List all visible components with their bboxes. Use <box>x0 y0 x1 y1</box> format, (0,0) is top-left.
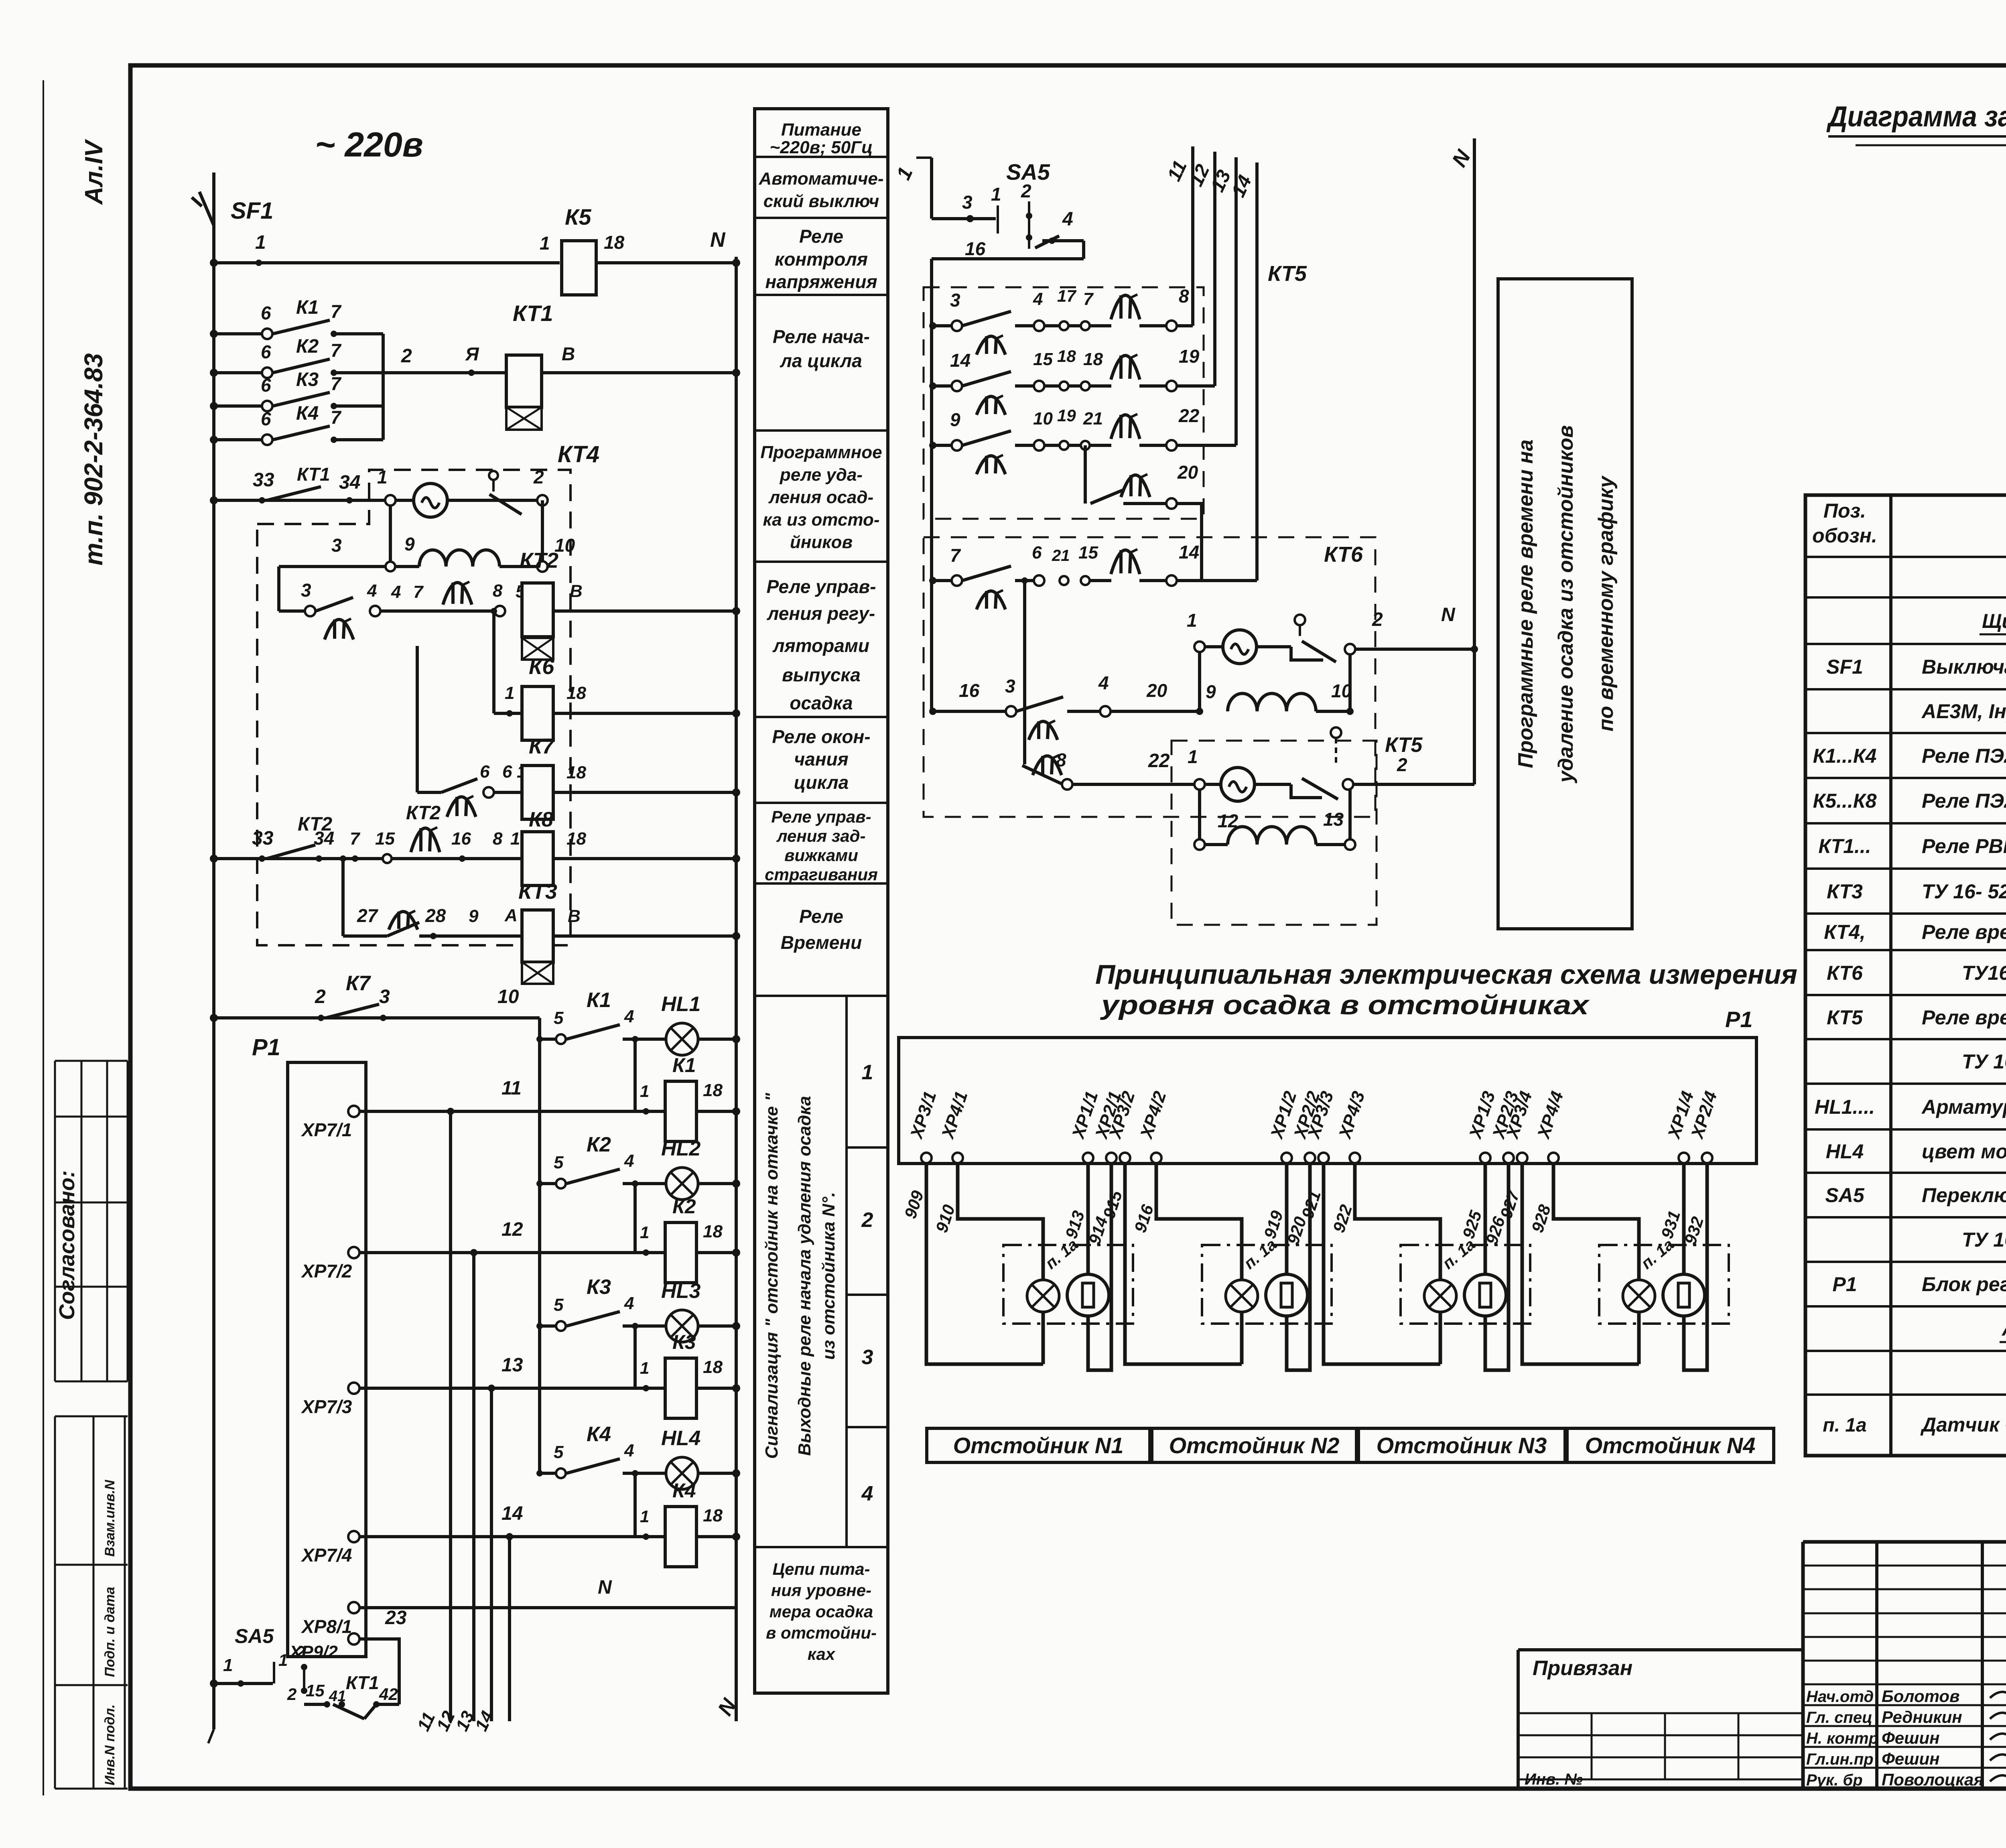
svg-text:в отстойни-: в отстойни- <box>766 1623 877 1642</box>
svg-text:Автоматиче-: Автоматиче- <box>759 169 884 189</box>
connector ХР9/2 <box>348 1633 359 1645</box>
svg-text:ТУ 16- 523. 472-74: ТУ 16- 523. 472-74 <box>1922 880 2006 903</box>
svg-text:ТУ 16-524. 074-75: ТУ 16-524. 074-75 <box>1962 1229 2006 1251</box>
svg-text:7: 7 <box>331 407 342 428</box>
svg-text:1: 1 <box>223 1655 233 1675</box>
svg-text:13: 13 <box>501 1355 523 1376</box>
svg-text:Отстойник N1: Отстойник N1 <box>953 1433 1124 1458</box>
svg-text:1: 1 <box>377 467 388 487</box>
svg-text:20: 20 <box>1146 680 1167 701</box>
svg-text:4: 4 <box>624 1441 634 1460</box>
svg-text:6: 6 <box>480 762 490 782</box>
svg-text:2: 2 <box>315 986 326 1007</box>
svg-text:15: 15 <box>375 829 395 849</box>
svg-text:4: 4 <box>861 1482 873 1505</box>
node 1 row 4 <box>643 1533 649 1540</box>
contact KT2 33-34 row <box>214 857 522 860</box>
connector XP1/4 <box>1679 1153 1689 1163</box>
note box Программные реле времени <box>1498 279 1632 929</box>
svg-text:Реле времени ВС-10-67 22: Реле времени ВС-10-67 220в <box>1922 1006 2006 1029</box>
SA5 pole 4 <box>1035 236 1059 248</box>
svg-text:К1...К4: К1...К4 <box>1813 745 1877 767</box>
svg-text:К1: К1 <box>296 297 319 318</box>
svg-text:1: 1 <box>540 233 550 254</box>
KT5 motor unit <box>1194 779 1205 790</box>
svg-text:йников: йников <box>790 532 853 552</box>
connector XP3/2 <box>1120 1153 1130 1163</box>
lamp feed bus <box>538 1018 541 1473</box>
svg-text:17: 17 <box>1057 286 1076 305</box>
svg-text:Согласовано:: Согласовано: <box>55 1170 79 1320</box>
connector XP4/2 <box>1151 1153 1161 1163</box>
KT4 time contact <box>443 583 472 605</box>
svg-text:чания: чания <box>794 749 848 770</box>
labels Отстойник N1-N4 <box>927 1428 1150 1462</box>
svg-text:К2: К2 <box>672 1195 696 1218</box>
svg-text:2: 2 <box>287 1685 296 1704</box>
svg-text:909: 909 <box>901 1188 928 1221</box>
svg-text:18: 18 <box>703 1080 723 1100</box>
connector ХР7/4 <box>348 1531 359 1542</box>
svg-text:К7: К7 <box>529 734 555 758</box>
svg-text:20: 20 <box>1177 462 1198 483</box>
svg-text:1: 1 <box>640 1082 649 1101</box>
svg-text:18: 18 <box>703 1357 723 1377</box>
svg-text:HL4: HL4 <box>661 1427 700 1450</box>
contact K3 lamp row <box>536 1323 543 1329</box>
connector ХР8/1 <box>348 1602 359 1613</box>
connector XP1/2 <box>1281 1153 1292 1163</box>
svg-text:915: 915 <box>1099 1188 1126 1221</box>
svg-text:4: 4 <box>391 582 401 602</box>
svg-text:2: 2 <box>1021 181 1031 201</box>
svg-text:22: 22 <box>1148 750 1170 772</box>
lamp branch wire 1 <box>633 1039 637 1111</box>
svg-text:7: 7 <box>1083 289 1094 309</box>
svg-text:цвет молочн. ТУ16-535. 417-7: цвет молочн. ТУ16-535. 417-75 <box>1922 1140 2006 1163</box>
svg-text:~ 220в: ~ 220в <box>315 126 423 164</box>
svg-text:921: 921 <box>1298 1188 1324 1221</box>
svg-text:Гл.ин.пр: Гл.ин.пр <box>1806 1751 1874 1768</box>
wire 909 <box>926 1163 1043 1364</box>
connector ХР7/3 <box>348 1383 359 1394</box>
svg-text:КТ1: КТ1 <box>297 464 330 485</box>
svg-text:3: 3 <box>950 290 960 311</box>
svg-text:1: 1 <box>640 1223 649 1242</box>
svg-text:3: 3 <box>962 192 973 213</box>
svg-text:16: 16 <box>965 238 986 259</box>
svg-text:HL3: HL3 <box>661 1279 700 1303</box>
svg-text:К4: К4 <box>672 1479 696 1502</box>
svg-text:928: 928 <box>1528 1202 1555 1235</box>
svg-text:2: 2 <box>861 1208 873 1232</box>
connector XP3/3 <box>1318 1153 1329 1163</box>
connector XP4/1 <box>952 1153 963 1163</box>
svg-text:33: 33 <box>252 828 274 849</box>
svg-text:N: N <box>598 1577 612 1598</box>
svg-text:922: 922 <box>1329 1202 1356 1235</box>
svg-text:Редникин: Редникин <box>1882 1708 1962 1726</box>
svg-text:8: 8 <box>1179 286 1189 307</box>
svg-text:по временному графику: по временному графику <box>1594 475 1618 731</box>
svg-text:Щит диспетчера: Щит диспетчера <box>1982 610 2006 632</box>
contact K3 <box>214 404 267 408</box>
svg-text:п. 1а: п. 1а <box>1440 1236 1479 1273</box>
svg-text:22: 22 <box>1178 405 1200 426</box>
svg-text:ления зад-: ления зад- <box>776 827 865 845</box>
svg-text:9: 9 <box>1206 681 1216 702</box>
svg-text:19: 19 <box>1057 406 1076 425</box>
svg-text:42: 42 <box>379 1685 398 1704</box>
svg-text:23: 23 <box>385 1607 407 1629</box>
svg-text:N: N <box>710 228 726 252</box>
wire 1 top <box>916 156 932 159</box>
svg-text:Реле управ-: Реле управ- <box>766 576 876 597</box>
signal lamp unit 2 <box>1226 1280 1258 1312</box>
svg-text:ХР4/3: ХР4/3 <box>1335 1089 1369 1142</box>
riser wires 11-14 <box>1191 146 1194 326</box>
svg-text:2: 2 <box>1372 609 1383 630</box>
svg-text:реле уда-: реле уда- <box>780 465 863 485</box>
svg-text:41: 41 <box>329 1688 346 1705</box>
svg-text:916: 916 <box>1131 1202 1157 1235</box>
svg-text:SА5: SА5 <box>235 1625 274 1647</box>
connector XP2/2 <box>1305 1153 1315 1163</box>
svg-text:18: 18 <box>703 1222 723 1241</box>
connector XP1/1 <box>1083 1153 1093 1163</box>
svg-text:К2: К2 <box>587 1133 611 1156</box>
svg-text:HL2: HL2 <box>661 1137 700 1160</box>
svg-text:14: 14 <box>501 1503 523 1524</box>
svg-text:К3: К3 <box>672 1331 696 1353</box>
svg-text:контроля: контроля <box>775 249 868 270</box>
node 1 row 3 <box>643 1385 649 1391</box>
block P1 long box <box>899 1038 1756 1164</box>
svg-text:Датчик СУ101 1Е2 850. 101-О: Датчик СУ101 1Е2 850. 101-ОСП <box>1920 1413 2006 1436</box>
svg-text:1: 1 <box>255 232 266 253</box>
svg-text:КТ6: КТ6 <box>1827 962 1863 984</box>
svg-text:8: 8 <box>1056 749 1066 770</box>
svg-text:вижками: вижками <box>784 846 858 865</box>
svg-text:6: 6 <box>261 303 271 323</box>
KT5 contact row 3-8 <box>929 322 936 329</box>
svg-text:Р1: Р1 <box>252 1034 280 1060</box>
svg-text:19: 19 <box>1179 346 1200 367</box>
svg-text:Реле ПЭ21-7УЗ 220В, ТУ16-523: Реле ПЭ21-7УЗ 220В, ТУ16-523.457-74 <box>1922 745 2006 767</box>
wire 13 <box>359 1387 665 1390</box>
svg-text:18: 18 <box>566 683 586 703</box>
KT4 switch contact <box>489 471 498 480</box>
svg-text:т.п. 902-2-364.83: т.п. 902-2-364.83 <box>79 353 108 565</box>
wire KT1 to N <box>542 371 736 374</box>
svg-text:7: 7 <box>350 829 361 849</box>
svg-text:Инв.N подл.: Инв.N подл. <box>102 1704 118 1785</box>
svg-text:К1: К1 <box>672 1054 696 1076</box>
connector ХР7/1 <box>348 1106 359 1117</box>
svg-text:Взам.инв.N: Взам.инв.N <box>102 1479 118 1557</box>
KT5 contact row 9-22 <box>929 442 936 449</box>
svg-text:В: В <box>562 343 575 364</box>
svg-text:3: 3 <box>862 1346 873 1369</box>
wire 916 <box>1156 1163 1242 1281</box>
svg-text:Реле: Реле <box>799 906 843 927</box>
svg-text:К3: К3 <box>296 369 319 390</box>
contact K2 <box>214 371 267 374</box>
svg-text:Отстойник N3: Отстойник N3 <box>1377 1433 1547 1458</box>
svg-text:14: 14 <box>950 350 971 371</box>
svg-text:Реле РВП72- 3221- 00У4 - 220/: Реле РВП72- 3221- 00У4 - 220/50 <box>1922 835 2006 857</box>
svg-text:3: 3 <box>331 535 342 556</box>
svg-text:Поволоцкая: Поволоцкая <box>1882 1770 1984 1789</box>
svg-text:13: 13 <box>1323 809 1344 830</box>
svg-text:Отстойник N4: Отстойник N4 <box>1585 1433 1756 1458</box>
svg-text:2: 2 <box>533 467 544 487</box>
svg-text:Реле времени ВС-10-36: Реле времени ВС-10-36 220в <box>1922 921 2006 943</box>
svg-text:7: 7 <box>331 301 342 322</box>
svg-text:5: 5 <box>554 1153 564 1172</box>
svg-text:15: 15 <box>1078 543 1098 563</box>
lamp branch wire 3 <box>633 1326 637 1388</box>
svg-text:К7: К7 <box>346 972 371 995</box>
title block row Привязан <box>1518 1648 1803 1651</box>
node A <box>468 370 475 376</box>
svg-text:931: 931 <box>1657 1208 1684 1241</box>
svg-text:1: 1 <box>862 1061 873 1084</box>
KT6 left branch <box>1023 581 1026 764</box>
node 1 row 1 <box>643 1108 649 1115</box>
connector XP3/4 <box>1517 1153 1527 1163</box>
KT5 inductor row 12-13 <box>1194 839 1205 850</box>
svg-text:п. 1а: п. 1а <box>1241 1236 1280 1273</box>
svg-text:Подп. и дата: Подп. и дата <box>102 1587 118 1677</box>
svg-text:9: 9 <box>404 534 415 554</box>
svg-text:К4: К4 <box>587 1423 611 1446</box>
svg-text:ления осад-: ления осад- <box>768 487 874 507</box>
svg-text:К2: К2 <box>296 336 319 357</box>
connector ХР7/2 <box>348 1247 359 1258</box>
svg-text:3: 3 <box>379 986 390 1007</box>
neutral bus N <box>735 257 738 1721</box>
svg-text:2: 2 <box>296 1643 305 1661</box>
svg-text:1: 1 <box>1188 746 1198 767</box>
contact K7 2-3 <box>214 1016 540 1019</box>
svg-text:913: 913 <box>1062 1208 1088 1241</box>
svg-text:~220в; 50Гц: ~220в; 50Гц <box>770 138 873 157</box>
wire row K5 <box>214 261 560 264</box>
svg-text:КТ5: КТ5 <box>1385 733 1423 757</box>
svg-text:21: 21 <box>1083 409 1103 428</box>
svg-text:ХР7/4: ХР7/4 <box>300 1545 352 1566</box>
svg-text:ния уровне-: ния уровне- <box>771 1581 871 1600</box>
svg-text:п. 1а: п. 1а <box>1042 1236 1082 1273</box>
svg-text:Нач.отд: Нач.отд <box>1806 1688 1874 1706</box>
svg-text:27: 27 <box>357 905 379 926</box>
svg-text:6: 6 <box>502 762 512 782</box>
svg-text:из отстойника N°.: из отстойника N°. <box>819 1192 839 1360</box>
svg-text:КТ4: КТ4 <box>558 441 599 467</box>
svg-text:4: 4 <box>624 1294 634 1313</box>
KT4 inner wire right <box>541 500 544 567</box>
contact KT4 to K7 <box>416 646 419 792</box>
svg-text:18: 18 <box>1083 349 1103 369</box>
svg-text:7: 7 <box>331 373 342 394</box>
svg-text:1: 1 <box>991 184 1001 205</box>
wire 14 <box>359 1535 665 1538</box>
wire 931 sensor <box>1682 1163 1686 1274</box>
svg-text:7: 7 <box>950 545 961 566</box>
KT4 motor drop wire <box>389 506 392 567</box>
svg-text:14: 14 <box>1179 542 1199 563</box>
svg-text:ТУ 16-523. 476-74: ТУ 16-523. 476-74 <box>1962 1050 2006 1073</box>
svg-text:16: 16 <box>959 680 980 701</box>
svg-text:10: 10 <box>1033 409 1053 428</box>
wire 922 <box>1355 1163 1440 1281</box>
function column frame <box>755 109 888 1693</box>
svg-text:1: 1 <box>510 829 520 849</box>
wire 919 sensor <box>1285 1163 1289 1274</box>
svg-text:КТ5: КТ5 <box>1268 262 1307 286</box>
svg-text:1: 1 <box>505 683 514 703</box>
sensor unit enclosure 2 <box>1202 1245 1332 1324</box>
wire 23 <box>359 1639 399 1704</box>
svg-text:SF1: SF1 <box>231 198 273 224</box>
svg-text:К8: К8 <box>529 808 553 831</box>
title block frame <box>1803 1540 2006 1544</box>
svg-text:HL1....: HL1.... <box>1815 1096 1875 1118</box>
sensor unit enclosure 1 <box>1003 1245 1133 1324</box>
branch to KT3 <box>341 859 345 936</box>
svg-text:КТ1: КТ1 <box>346 1672 379 1693</box>
svg-text:Рук. бр: Рук. бр <box>1806 1771 1863 1789</box>
svg-text:К6: К6 <box>529 655 554 679</box>
wire 910 <box>958 1163 1043 1281</box>
svg-text:910: 910 <box>932 1202 958 1235</box>
svg-text:HL1: HL1 <box>661 993 700 1016</box>
time contact KT2 <box>411 828 440 852</box>
svg-text:Р1: Р1 <box>1832 1273 1857 1296</box>
contact KT1 33-34 <box>214 499 364 502</box>
svg-text:9: 9 <box>950 409 960 430</box>
connector XP3/1 <box>921 1153 932 1163</box>
svg-text:напряжения: напряжения <box>765 271 877 292</box>
svg-text:КТ3: КТ3 <box>518 879 557 904</box>
svg-text:Я: Я <box>465 343 479 364</box>
svg-text:цикла: цикла <box>794 772 849 793</box>
svg-text:1: 1 <box>892 164 917 183</box>
svg-text:КТ2: КТ2 <box>406 802 441 824</box>
svg-text:9: 9 <box>469 906 479 926</box>
svg-text:4: 4 <box>1033 289 1043 309</box>
svg-text:КТ4,: КТ4, <box>1824 921 1866 943</box>
wire 915 <box>1125 1163 1242 1364</box>
svg-text:ка из отсто-: ка из отсто- <box>763 510 879 530</box>
contact K1 <box>214 332 267 335</box>
svg-text:п. 1а: п. 1а <box>1823 1415 1866 1436</box>
signal lamp unit 4 <box>1623 1280 1655 1312</box>
connector XP2/1 <box>1106 1153 1117 1163</box>
svg-text:5: 5 <box>554 1295 564 1315</box>
svg-text:2: 2 <box>1397 754 1407 775</box>
svg-text:К3: К3 <box>587 1275 611 1299</box>
svg-text:В: В <box>568 906 581 926</box>
svg-text:Гл. спец: Гл. спец <box>1806 1709 1872 1726</box>
svg-text:15: 15 <box>306 1681 325 1700</box>
svg-text:4: 4 <box>367 581 377 601</box>
collector wire <box>382 334 385 440</box>
breaker SF1 <box>212 173 215 189</box>
svg-text:Диаграмма замыкания контактов: Диаграмма замыкания контактов переключат… <box>1826 101 2006 133</box>
connector XP2/4 <box>1702 1153 1712 1163</box>
wire 928 <box>1553 1163 1639 1281</box>
svg-text:Выключатель автоматический: Выключатель автоматический <box>1922 656 2006 678</box>
svg-text:8: 8 <box>493 581 503 601</box>
svg-text:п. 1а: п. 1а <box>1638 1236 1677 1273</box>
svg-text:КТ3: КТ3 <box>1827 880 1863 903</box>
wire K5 to N <box>596 261 736 264</box>
svg-text:ХР8/1: ХР8/1 <box>300 1616 352 1637</box>
connector XP4/4 <box>1548 1153 1559 1163</box>
svg-text:3: 3 <box>1005 676 1015 697</box>
svg-text:6: 6 <box>261 408 271 429</box>
wire 12 <box>359 1251 665 1254</box>
svg-text:16: 16 <box>451 829 471 849</box>
svg-text:15: 15 <box>1033 349 1053 369</box>
svg-text:ХР3/1: ХР3/1 <box>906 1089 940 1142</box>
svg-text:7: 7 <box>331 340 342 361</box>
node 1 <box>256 260 262 266</box>
svg-text:Р1: Р1 <box>1725 1007 1753 1032</box>
svg-text:ках: ках <box>808 1645 836 1663</box>
wire 11 <box>359 1110 665 1113</box>
svg-text:33: 33 <box>253 469 274 491</box>
contact KT2 27-28 <box>343 934 387 938</box>
svg-text:Реле управ-: Реле управ- <box>771 807 871 826</box>
wire XP8 to N <box>359 1606 736 1609</box>
svg-text:ХР4/4: ХР4/4 <box>1533 1089 1567 1142</box>
sensor unit enclosure 4 <box>1599 1245 1729 1324</box>
svg-text:Реле окон-: Реле окон- <box>772 726 870 747</box>
svg-text:Программное: Программное <box>760 443 882 462</box>
stamp grid lower <box>55 1415 128 1417</box>
relay coil K6 <box>494 712 522 715</box>
svg-text:ский выключ: ский выключ <box>763 191 879 211</box>
node 1 row 2 <box>643 1249 649 1256</box>
KT6 contact row 7-14 <box>929 577 936 584</box>
svg-text:ХР7/2: ХР7/2 <box>300 1261 352 1281</box>
svg-text:Арматура сигнальная ЛС-53 ~: Арматура сигнальная ЛС-53 ~220в <box>1921 1096 2006 1118</box>
contact K2 lamp row <box>536 1180 543 1187</box>
svg-text:Выходные реле начала удаления: Выходные реле начала удаления осадка <box>795 1096 814 1456</box>
svg-text:КТ1...: КТ1... <box>1818 835 1871 857</box>
wire 925 sensor <box>1484 1163 1487 1274</box>
KT6 contact row 16-10 <box>929 708 936 715</box>
svg-text:18: 18 <box>566 763 586 782</box>
svg-text:К5...К8: К5...К8 <box>1813 790 1877 812</box>
KT4 contact row 3-4 <box>305 606 315 616</box>
svg-text:КТ6: КТ6 <box>1324 542 1363 567</box>
svg-text:ТУ16-523. 476-74: ТУ16-523. 476-74 <box>1962 962 2006 984</box>
connector XP4/3 <box>1350 1153 1360 1163</box>
svg-text:мера осадка: мера осадка <box>770 1602 873 1621</box>
KT4 inductor row <box>279 565 419 568</box>
wire 927 <box>1522 1163 1639 1364</box>
svg-text:Инв. №: Инв. № <box>1525 1771 1583 1788</box>
svg-text:4: 4 <box>1098 672 1109 693</box>
svg-text:Реле ПЭ21-5УЗ 220В. ТУ16-52: Реле ПЭ21-5УЗ 220В. ТУ16-523.457-74 <box>1922 790 2006 812</box>
branch wire down <box>492 611 495 713</box>
time relay KT6 contact enclosure <box>924 537 1375 817</box>
wire KT2 to N <box>554 609 736 613</box>
